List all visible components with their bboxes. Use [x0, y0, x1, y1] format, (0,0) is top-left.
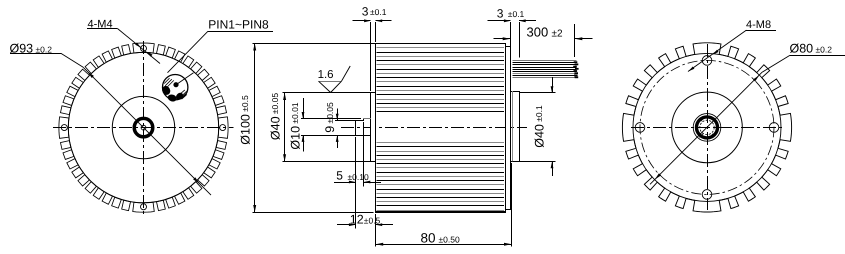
svg-text:±0.50: ±0.50 [439, 234, 460, 244]
svg-text:Ø40 ±0.1: Ø40 ±0.1 [532, 105, 546, 148]
svg-text:±0.10: ±0.10 [348, 172, 369, 182]
svg-text:±0.1: ±0.1 [508, 9, 525, 19]
svg-text:±0.1: ±0.1 [370, 7, 387, 17]
svg-text:3: 3 [362, 4, 369, 18]
svg-text:Ø10 ±0.01: Ø10 ±0.01 [288, 102, 302, 149]
svg-text:4-M8: 4-M8 [746, 19, 771, 31]
svg-text:Ø93 ±0.2: Ø93 ±0.2 [10, 41, 53, 55]
svg-text:±2: ±2 [552, 28, 563, 39]
svg-text:1.6: 1.6 [318, 69, 334, 81]
svg-text:Ø40 ±0.05: Ø40 ±0.05 [268, 93, 282, 140]
svg-text:12: 12 [350, 213, 364, 227]
svg-text:Ø100 ±0.5: Ø100 ±0.5 [238, 95, 252, 145]
svg-text:PIN1~PIN8: PIN1~PIN8 [208, 17, 269, 31]
svg-text:9 ±0.05: 9 ±0.05 [323, 102, 337, 133]
svg-text:300: 300 [527, 24, 549, 39]
svg-text:80: 80 [421, 231, 436, 246]
svg-text:Ø80 ±0.2: Ø80 ±0.2 [790, 42, 833, 56]
svg-text:5: 5 [336, 168, 343, 182]
svg-text:±0.5: ±0.5 [364, 215, 381, 225]
svg-text:3: 3 [497, 6, 504, 20]
